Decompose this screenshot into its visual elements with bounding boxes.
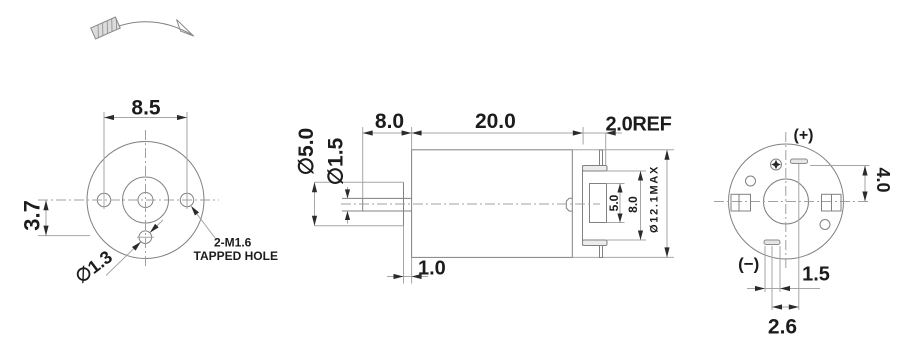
rear vertical centerline [785, 132, 787, 268]
centerline middle view [341, 203, 600, 205]
svg-text:2-M1.6: 2-M1.6 [214, 236, 252, 250]
dim cap5.0 text [607, 194, 621, 211]
dim 8.0 ext left [362, 127, 364, 198]
rear horizontal centerline [714, 201, 871, 203]
terminal tab bottom [583, 240, 608, 246]
svg-text:∅1.3: ∅1.3 [72, 247, 117, 287]
dim 3.7 text [19, 200, 44, 231]
svg-text:(−): (−) [738, 255, 759, 274]
leader 2-M1.6 [197, 214, 216, 239]
dim 2.0REF ext [605, 133, 607, 165]
minus slot [764, 240, 780, 245]
dim 4.0 line [864, 166, 866, 202]
dim 3.7 line [45, 200, 47, 236]
dim 4.0 ext [810, 165, 870, 167]
rear center hole [764, 179, 809, 224]
rivet [771, 159, 782, 170]
mounting hole right [180, 193, 193, 206]
svg-text:3.7: 3.7 [19, 200, 44, 231]
dim 8.5 line [104, 117, 187, 119]
rear hole upper-left [746, 176, 756, 186]
dim 1.5 line [747, 288, 765, 290]
dim dia12.1 text [649, 165, 661, 233]
bearing bump [566, 198, 572, 211]
dim dia5.0 ext top [315, 181, 404, 183]
dim 1.0 ext lines [403, 226, 405, 284]
dim 4.0 text [873, 167, 893, 192]
svg-text:2.0REF: 2.0REF [605, 114, 671, 136]
dim dia5.0 line [314, 182, 316, 225]
plus slot [791, 159, 808, 164]
dim dia5.0 text [295, 128, 318, 176]
svg-text:20.0: 20.0 [475, 110, 516, 133]
terminal pin bottom [600, 246, 603, 258]
dim 8.5 extension lines [103, 112, 105, 192]
bushing [403, 182, 405, 225]
dim 2.6 line [772, 306, 799, 308]
svg-text:1.5: 1.5 [802, 264, 830, 286]
body top edge extension right [572, 149, 674, 151]
dim dia5.0 ext bottom [315, 225, 404, 227]
svg-text:(+): (+) [794, 127, 814, 144]
shaft bottom edge [342, 210, 412, 212]
svg-text:∅5.0: ∅5.0 [295, 128, 318, 176]
boss circle [123, 177, 169, 223]
rear hole lower-right [820, 220, 830, 230]
open arrowhead [177, 20, 194, 37]
hole tick bottom [137, 236, 154, 238]
dim cap8.0 line [640, 171, 642, 240]
shaft circle [138, 193, 153, 208]
dim cap5.0 line [619, 184, 621, 223]
shaft top edge [342, 197, 412, 199]
brush box [590, 184, 607, 223]
dim dia1.5 text [325, 137, 348, 185]
dim cap8.0 text [626, 196, 640, 213]
side tab left [731, 194, 751, 211]
body rectangle [412, 150, 573, 258]
hole 1.3 bottom [139, 231, 152, 244]
svg-text:8.5: 8.5 [131, 97, 161, 120]
svg-text:1.0: 1.0 [418, 258, 446, 280]
rotation arc [119, 22, 194, 36]
motor outline circle [87, 142, 204, 259]
horizontal centerline [38, 199, 219, 201]
terminal pin top [600, 150, 603, 166]
vertical centerline [145, 130, 147, 266]
dim cap8.0 ext [607, 170, 646, 172]
dim dia12.1 line [666, 150, 668, 258]
svg-text:2.6: 2.6 [768, 316, 797, 339]
dim 20.0 ext right [582, 127, 584, 145]
svg-text:8.0: 8.0 [375, 110, 404, 133]
shaft tip [362, 198, 364, 211]
dim 3.7 extension line [38, 235, 90, 237]
terminal tab top [583, 166, 608, 172]
hole tick left [103, 191, 105, 209]
rear outline circle [729, 144, 844, 259]
end cap face [582, 166, 584, 246]
body bottom edge extension right [572, 256, 674, 258]
dim 8.0 line [363, 132, 412, 134]
rotation-direction icon [91, 17, 194, 39]
dim 2.0REF line [583, 132, 606, 134]
mounting hole left [97, 193, 110, 206]
label dia 1.3 [72, 247, 117, 287]
svg-text:∅1.5: ∅1.5 [325, 137, 348, 185]
svg-text:Ø12.1MAX: Ø12.1MAX [649, 165, 661, 233]
svg-text:4.0: 4.0 [873, 167, 893, 192]
side tab right [822, 194, 842, 211]
svg-text:5.0: 5.0 [607, 194, 621, 211]
dim 2.6 ext lines [771, 246, 773, 310]
dim 20.0 line [412, 132, 583, 134]
svg-text:8.0: 8.0 [626, 196, 640, 213]
svg-text:TAPPED HOLE: TAPPED HOLE [194, 249, 278, 263]
hatched brush block [91, 17, 121, 39]
dim 1.0 line [387, 276, 404, 278]
dim cap5.0 ext [607, 183, 625, 185]
hole tick right [186, 191, 188, 209]
dim dia1.5 line [347, 187, 349, 198]
dim 8.0 ext right [411, 127, 413, 150]
dim 1.5 ext lines [764, 246, 766, 292]
leader dia1.3 [106, 242, 141, 276]
